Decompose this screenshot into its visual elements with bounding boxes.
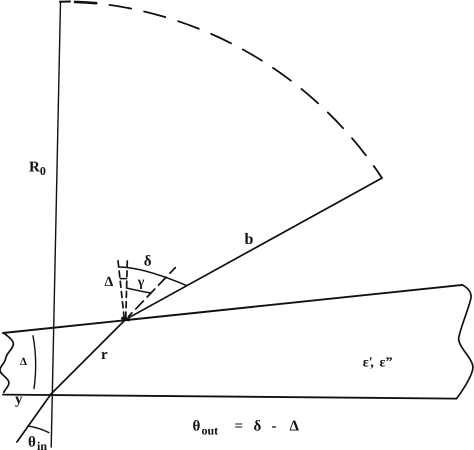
Delta wedge angle arc (left, tall): [33, 336, 36, 389]
delta angle arc: [119, 267, 187, 285]
svg-text:y: y: [15, 392, 23, 408]
line r from origin to surface vertex: [51, 320, 126, 395]
dashed arc of radius R0 : first thick dash: [75, 2, 96, 3]
svg-text:Δ: Δ: [20, 356, 27, 368]
gamma angle arc: [127, 288, 151, 293]
slab right break edge: [457, 285, 473, 399]
theta_in angle arc: [28, 426, 49, 433]
dashed arc of radius R0: [96, 3, 382, 178]
slab bottom surface: [3, 395, 457, 399]
vertical reference line (dashed): [126, 261, 128, 318]
svg-text:γ: γ: [137, 275, 145, 290]
Delta tick between dashed lines: [120, 278, 126, 280]
line b from surface vertex to arc end: [126, 178, 383, 320]
undeviated ray continuation (dashed 45 deg): [129, 268, 176, 317]
surface normal (dashed, tilted left): [118, 261, 124, 319]
svg-text:b: b: [245, 231, 254, 248]
slab top surface: [3, 285, 462, 333]
top corner tick: [60, 1, 70, 3]
svg-text:δ: δ: [144, 254, 152, 270]
incident ray below origin: [17, 394, 51, 442]
svg-text:r: r: [101, 347, 108, 363]
slab left break edge: [0, 333, 13, 392]
R0 radius line: [51, 2, 60, 448]
vertex junction blob: [123, 318, 129, 319]
svg-text:Δ: Δ: [105, 275, 114, 290]
